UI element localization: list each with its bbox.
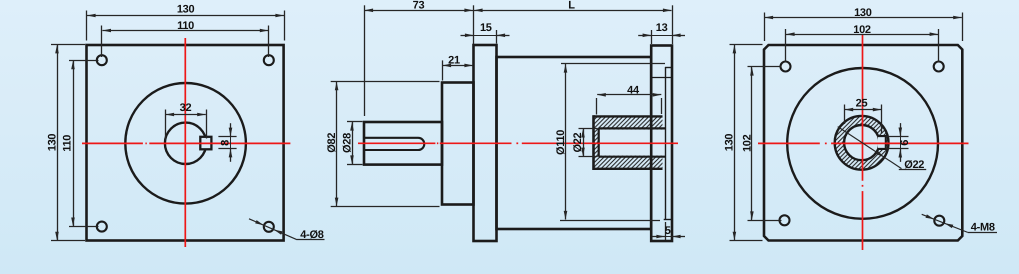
left view: bolt hole bottom-left [97, 222, 107, 232]
side view: coupling hatched section [594, 116, 663, 168]
svg-text:130: 130 [177, 4, 195, 16]
dimension 102 left (right view) [748, 66, 782, 68]
dimension 44 (coupling length) [596, 98, 598, 115]
left view: red horizontal centerline [82, 142, 143, 144]
svg-text:130: 130 [47, 134, 59, 152]
svg-text:Ø22: Ø22 [572, 132, 584, 152]
right view: bolt hole top-left [781, 62, 791, 72]
dimension O110 (rear pilot diameter) [561, 63, 665, 65]
side view: rear flange plate [651, 46, 672, 242]
leader 4-M8 (tapped holes) [922, 214, 968, 232]
svg-text:130: 130 [724, 134, 736, 152]
left view: boss circle [125, 83, 246, 204]
dimension 130 top (right view) [764, 13, 766, 42]
leader O22 (right view bore) [838, 127, 902, 169]
dimension 110 left side (left view) [69, 60, 99, 62]
svg-text:110: 110 [62, 135, 74, 152]
svg-text:102: 102 [853, 24, 871, 36]
dimension 130 left side (left view) [51, 44, 85, 46]
right view: bolt hole bottom-right [934, 216, 944, 226]
right view: bolt hole top-right [934, 62, 944, 72]
left view: red vertical centerline [184, 38, 186, 247]
right view: red vertical centerline [862, 35, 864, 181]
side view: rear pilot recess step [665, 67, 667, 220]
left view: bolt hole bottom-right [264, 222, 274, 232]
svg-text:32: 32 [180, 102, 192, 114]
right view: bore circle O22 [844, 125, 879, 160]
dimension L (body length) [672, 5, 674, 44]
side view: output shaft [364, 122, 442, 165]
svg-text:21: 21 [448, 54, 460, 66]
left view: square flange plate outline [87, 45, 284, 241]
right view: bolt hole bottom-left [780, 215, 790, 225]
svg-text:4-Ø8: 4-Ø8 [300, 229, 323, 241]
svg-text:Ø22: Ø22 [904, 159, 924, 171]
dimension 110 top (left view) [101, 26, 103, 58]
svg-text:Ø28: Ø28 [342, 133, 354, 153]
dimension 25 (bore + keyway) [844, 105, 846, 125]
left view: bolt hole top-left [97, 55, 107, 65]
right view: red horizontal centerline [758, 142, 820, 144]
side view: front flange plate [474, 45, 497, 241]
svg-text:73: 73 [413, 0, 425, 12]
svg-text:6: 6 [899, 140, 911, 146]
right view: square flange outline (chamfered corners) [764, 45, 962, 241]
dimension O82 (boss diameter) [331, 81, 440, 83]
dimension O22 (coupling bore) [579, 128, 598, 130]
leader 4-O8 (mounting holes) [249, 219, 297, 240]
dimension 13 (rear flange thickness) [651, 30, 653, 44]
dimension 130 top (left view) [86, 11, 88, 41]
right view: keyway notch [878, 136, 886, 149]
dimension 32 (bore) [165, 110, 167, 141]
dimension 21 (boss length) [442, 60, 444, 80]
side view: pilot boss O82 [442, 83, 474, 205]
dimension 102 top (right view) [785, 29, 787, 63]
dimension 6 (keyway width, right view) [886, 136, 909, 138]
side view: shaft keyway slot [365, 138, 425, 150]
dimension 130 left (right view) [730, 44, 763, 46]
svg-text:130: 130 [854, 7, 872, 19]
dimension 8 (keyway width) [218, 136, 236, 138]
right view: hub hatched ring [835, 116, 889, 170]
svg-text:Ø110: Ø110 [555, 130, 567, 155]
svg-text:4-M8: 4-M8 [971, 222, 995, 234]
svg-text:L: L [568, 0, 575, 12]
side view: red centerline [358, 142, 435, 144]
svg-text:5: 5 [665, 225, 671, 237]
svg-text:25: 25 [856, 98, 868, 110]
dimension 73 (shaft to flange) [364, 5, 366, 116]
left view: bore circle O32 [165, 123, 206, 164]
dimension O28 (shaft diameter) [347, 121, 363, 123]
svg-text:Ø82: Ø82 [326, 133, 338, 153]
svg-text:15: 15 [480, 22, 492, 34]
dimension 5 (recess depth) [665, 222, 667, 240]
side view: gearbox body [497, 57, 652, 229]
svg-text:13: 13 [656, 22, 668, 34]
svg-text:102: 102 [741, 134, 753, 152]
right view: pilot circle [787, 68, 938, 219]
left view: bolt hole top-right [264, 55, 274, 65]
dimension 15 (front flange thickness) [496, 30, 498, 44]
svg-text:44: 44 [627, 85, 640, 97]
left view: keyway square [200, 137, 211, 150]
svg-text:8: 8 [219, 140, 231, 146]
svg-text:110: 110 [177, 20, 194, 32]
